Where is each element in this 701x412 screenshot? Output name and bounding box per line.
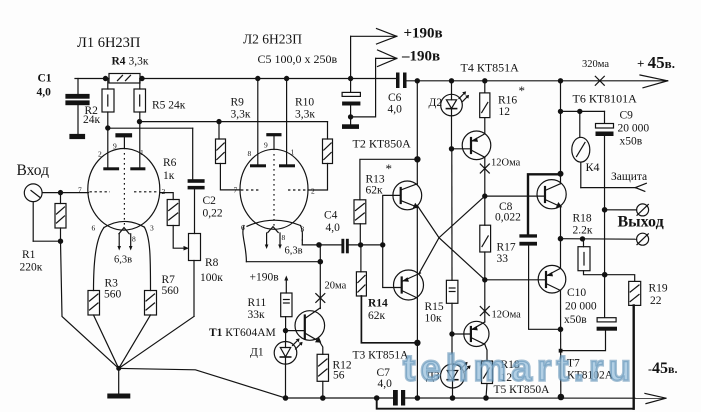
svg-text:56: 56 [333,370,345,382]
svg-text:Т6 КТ8101А: Т6 КТ8101А [573,92,638,106]
output jack 1 [637,204,649,216]
resistor R13 [359,224,361,245]
wire C8 down [529,246,561,330]
svg-text:8: 8 [132,235,136,244]
tube L1 cathode arc [104,221,144,227]
resistor R18b [583,239,585,247]
tube L1 envelope [88,149,160,231]
svg-text:С6: С6 [388,92,402,104]
node T5 rail [484,396,488,400]
arrow -190v [378,50,397,58]
capacitor C7 [393,390,398,406]
wire +190v branch [350,36,352,78]
node output [558,237,562,241]
svg-text:R6: R6 [163,157,177,169]
svg-text:12: 12 [499,106,511,118]
output jack 2 [637,233,649,245]
resistor R15 [446,280,458,303]
arrow -45v [645,393,666,398]
resistor R4 [109,74,140,84]
svg-text:3,3к: 3,3к [295,109,315,121]
resistor R12 [317,354,328,381]
svg-text:R1: R1 [22,249,36,261]
chassis bar of C5 [342,124,359,129]
svg-text:4,0: 4,0 [378,378,393,390]
wire node to T5 [484,280,486,322]
node rail-R2 [103,76,107,80]
svg-text:R4 3,3к: R4 3,3к [112,56,149,68]
resistor R3 [88,291,100,316]
resistor R19 [605,275,635,282]
resistor R7 [145,291,157,316]
wire D2 to T4 base column [451,116,453,149]
node C10 return [559,349,563,353]
svg-text:20 000: 20 000 [618,123,650,135]
wire C9 minus down [604,136,606,318]
svg-text:6,3в: 6,3в [285,246,303,257]
svg-text:3: 3 [150,224,154,233]
node K4 top [578,109,582,113]
resistor R1 [60,193,62,204]
capacitor C4 [341,239,344,254]
relay K4 [579,111,581,137]
wire T6 base [485,195,545,197]
svg-text:х50в: х50в [564,314,587,326]
star ground stub [118,368,120,393]
transistor T1 [295,311,325,341]
wire R10 to grid pin2 tube2 [308,164,328,191]
svg-text:С9: С9 [620,110,634,122]
wire R1 node to star [61,241,119,368]
wire T5 collector to R18a [485,344,487,361]
tube L1 top cap pin9 [116,134,132,137]
wire T6 collector up [560,174,562,184]
diode D3 [441,364,465,388]
wire input shield down [32,202,34,242]
svg-text:R15: R15 [425,301,444,313]
arrow protection [635,183,646,187]
wire K4 to protection [581,187,636,189]
svg-text:–190в: –190в [401,49,440,65]
node C8 return [558,327,562,331]
resistor R18a [482,361,493,384]
node rail anode2 tube2 [285,76,289,80]
resistor R14 [360,245,362,272]
node rail T6 [558,79,562,83]
svg-text:62к: 62к [368,310,386,322]
diode D1 [274,342,297,365]
svg-text:7: 7 [234,186,238,195]
svg-text:8: 8 [282,233,286,242]
svg-text:C1: C1 [38,73,52,85]
input connector [24,184,42,202]
wire R7 to star [119,315,151,368]
node cathode C4 [317,243,321,247]
node R12 rail [321,396,325,400]
svg-text:R19: R19 [649,283,668,295]
resistor R17 [484,196,486,225]
wire R8 to star [193,261,195,317]
svg-text:Защита: Защита [611,171,647,183]
svg-text:*: * [386,161,393,176]
wire T7 base [485,279,546,281]
svg-text:Т4 КТ851А: Т4 КТ851А [461,61,520,75]
svg-text:х50в: х50в [620,136,643,148]
node T6 collector C8 [558,171,563,176]
tube L2 cathode arc [247,220,301,226]
node emitter R14 [415,340,420,345]
node cathode return [318,260,322,264]
svg-text:7: 7 [78,186,82,195]
node rail-R5 [140,76,144,80]
node input-R1 [58,191,62,195]
node T5 base [450,332,454,336]
wire T4 collector down [484,157,486,196]
node rail anode1 tube2 [256,76,260,80]
wire T4 emitter to R16 [484,118,486,134]
svg-text:R10: R10 [295,97,314,109]
diode D2 [451,81,453,95]
wire to R9 R10 tops [140,121,328,123]
wire to jack1 [605,209,637,211]
svg-text:3: 3 [301,225,305,234]
svg-text:8: 8 [248,149,252,158]
svg-text:Выход: Выход [618,214,664,231]
svg-text:R11: R11 [248,297,267,309]
svg-text:12Ома: 12Ома [492,310,522,321]
wire T2 base [383,195,401,245]
diagonal T3 emitter to upper node [420,196,485,272]
svg-text:560: 560 [104,289,122,301]
wire T1 base [286,330,305,332]
node -45 rail big [558,394,563,399]
node R19 branch [603,273,607,277]
wire output node to jack2 [561,238,637,241]
node rail D2 [449,79,453,83]
svg-text:Д2: Д2 [429,97,443,109]
node star ground point [117,367,121,371]
svg-text:Л1 6Н23П: Л1 6Н23П [77,35,141,51]
svg-text:24к: 24к [83,114,101,126]
svg-text:-45в.: -45в. [648,360,677,377]
wire star to bottom rail [119,368,286,398]
resistor R5 [139,79,141,90]
svg-text:4,0: 4,0 [37,87,52,99]
wire rail to T6 [560,81,562,174]
tube L2 envelope [240,149,308,229]
svg-text:R18: R18 [573,213,592,225]
capacitor C9 [604,111,606,123]
svg-text:320ма: 320ма [582,59,609,70]
svg-text:20 000: 20 000 [565,301,597,313]
svg-text:9: 9 [264,141,268,150]
svg-text:560: 560 [162,285,180,297]
node T4 T6 base [483,194,487,198]
svg-text:tehmart.ru: tehmart.ru [403,348,636,389]
wire D2 column down to R15 [451,149,453,280]
svg-text:R5 24к: R5 24к [152,100,186,112]
wire T2 emitter down [416,207,418,343]
wire D1 to bottom rail [285,364,287,398]
svg-text:33к: 33к [248,309,266,321]
wire T4 base [452,148,472,150]
resistor R9 [216,139,226,164]
transistor T3 [394,270,424,300]
wire -190v branch [351,58,376,117]
node T2 collector C6 [415,157,420,162]
svg-text:2: 2 [162,187,166,196]
wire anode leads tube2 [257,79,259,165]
wire R2 to tube1 anode1 [107,112,109,168]
svg-text:3,3к: 3,3к [231,109,251,121]
svg-text:62к: 62к [366,185,384,197]
ground symbol [107,394,130,399]
transistor T6 [537,180,566,209]
wire R9 to grid pin7 tube2 [220,164,240,190]
resistor R6 [167,200,179,226]
svg-text:6: 6 [92,224,96,233]
svg-text:С10: С10 [567,287,586,299]
node D3 rail [450,396,454,400]
svg-text:С5 100,0 х 250в: С5 100,0 х 250в [258,52,338,66]
transistor T7 [538,265,566,293]
arrow +45v [640,75,668,81]
svg-text:+190в: +190в [250,272,280,284]
svg-text:22: 22 [650,295,662,307]
svg-text:R9: R9 [231,97,245,109]
wire grid2 to R6 [160,193,173,200]
svg-text:10к: 10к [425,313,443,325]
svg-text:Л2 6Н23П: Л2 6Н23П [243,32,302,47]
wire R3 to star [94,315,119,368]
svg-text:1к: 1к [163,170,175,182]
wire C6 to T2 collector [416,81,418,184]
wire cathode1 to R3 [94,228,105,291]
svg-text:R8: R8 [205,257,219,269]
svg-text:1: 1 [140,148,144,157]
node rail T3 [415,396,419,400]
node rail R16 [483,79,487,83]
wire cathode2 to R7 [144,227,150,290]
wire grid1 to input node [61,192,89,194]
svg-text:+ 45в.: + 45в. [637,53,675,72]
capacitor C1 [77,79,79,95]
capacitor C5 [349,76,353,80]
node output jack1 [602,208,606,212]
wire to C9 [561,110,605,112]
wire top rail +190 left part [75,78,109,80]
svg-text:2: 2 [311,187,315,196]
svg-text:0,22: 0,22 [203,208,223,220]
wire T7 collector down [560,291,562,398]
wire C10 down [561,331,606,351]
svg-text:20ма: 20ма [325,281,347,292]
node R13 R14 [359,243,363,247]
trimmer R8 [189,234,201,261]
wire C4 out node [349,244,383,246]
svg-text:220к: 220к [20,262,43,274]
svg-text:6: 6 [241,223,245,232]
tube L1 anode plates [103,167,119,170]
tube L2 top cap pin9 [266,133,281,136]
ammeter x 12oma bottom [480,307,489,316]
capacitor C6 [396,73,400,89]
node T2 T3 base [381,243,385,247]
capacitor C8 [528,174,561,234]
wire cathode pin3 tube2 [301,226,303,241]
svg-text:К4: К4 [586,160,600,174]
capacitor C10 [597,318,616,322]
wire T3 base [383,245,402,288]
svg-text:*: * [519,83,526,98]
diagonal T2 emitter to lower node [417,206,485,280]
svg-text:Т1 КТ604АМ: Т1 КТ604АМ [209,327,276,339]
svg-text:C2: C2 [203,195,217,207]
wire R14 to emitter node [361,296,417,343]
transistor T4 [462,131,491,160]
svg-text:100к: 100к [200,272,223,284]
capacitor C2 [188,179,205,183]
svg-text:R16: R16 [498,95,517,107]
resistor R11 with +190v arrow [285,280,287,294]
wire R6 to R8 wiper [173,226,184,249]
svg-text:9: 9 [113,142,117,151]
node anode1-C2 branch [106,126,110,130]
arrow +190v [377,29,397,37]
node R1 bottom [58,239,62,243]
node C7 ground link [375,396,379,400]
node bottom rail left end [283,396,287,400]
wire T6 emitter to output node [560,206,562,239]
wire cathode pin6 tube2 [243,226,247,262]
tube L2 anode plates [250,164,266,167]
transistor T2 [393,181,422,210]
svg-text:4,0: 4,0 [326,222,341,234]
wire 20ma measure branch [319,262,321,309]
wire bottom rail to C7 [286,397,394,399]
svg-text:33: 33 [497,253,509,265]
wire ground link under C7 to R19 [377,398,634,409]
node R5-R9R10 branch [137,120,141,124]
tube L2 heater [268,227,278,233]
svg-text:+190в: +190в [404,26,443,42]
wire top rail +45 [407,80,668,82]
svg-text:Д1: Д1 [250,347,264,359]
node T1 base junction [283,329,287,333]
wire R13 to T2 collector node [360,159,418,200]
ammeter x 20ma [316,294,325,303]
wire to C2 [108,127,193,129]
svg-text:Т2 КТ850А: Т2 КТ850А [353,137,412,151]
svg-text:6,3в: 6,3в [114,255,132,266]
ground chassis bar of C1 [70,135,85,139]
ammeter x 12oma top [480,164,489,173]
wire T5 base [452,333,471,335]
tube L1 divider dotted [123,153,125,228]
resistor R16 [484,81,486,93]
tube L1 grid dashed [90,191,111,193]
svg-text:Т3 КТ851А: Т3 КТ851А [353,350,410,362]
svg-text:С4: С4 [324,210,338,222]
svg-text:2.2к: 2.2к [573,225,593,237]
svg-text:0,022: 0,022 [495,212,521,224]
wire T7 emitter up [560,239,562,269]
node D2 T4 base [449,147,453,151]
node C9 branch [558,109,562,113]
transistor T5 [464,321,489,346]
svg-text:4,0: 4,0 [388,104,403,116]
node C6 T2 [415,79,419,83]
node C5 minus [349,115,353,119]
svg-text:12Ома: 12Ома [491,158,521,169]
node R18b top [580,237,584,241]
svg-text:2: 2 [98,150,102,159]
wire bottom -45 rail [405,397,666,399]
ammeter x 320ma [595,76,604,85]
wire R5 to tube1 anode2 [139,112,141,168]
tube L1 heater [119,228,129,234]
tube L2 grid dashed [241,189,260,191]
resistor R10 [323,139,333,164]
tube L2 divider dotted [273,154,275,227]
node R9 top [217,120,221,124]
node lower cross T7 base [483,278,487,282]
svg-text:Вход: Вход [17,162,50,179]
wire T1 emitter to R12 [320,342,323,355]
resistor R2 [107,79,109,90]
svg-text:R17: R17 [497,242,516,254]
svg-text:1: 1 [291,148,295,157]
svg-text:R14: R14 [368,298,388,310]
